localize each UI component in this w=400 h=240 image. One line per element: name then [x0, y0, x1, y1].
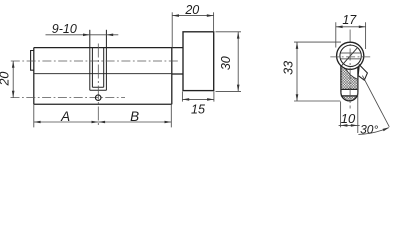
horizontal centerline: [330, 56, 370, 58]
cam tab: [358, 65, 367, 80]
cam cutout edge: [346, 69, 358, 80]
keyway slot inner walls: [92, 48, 103, 88]
dimension 20 (left): [0, 61, 15, 98]
svg-text:30: 30: [219, 56, 233, 70]
housing/plug boundary line: [34, 73, 172, 75]
svg-text:15: 15: [191, 103, 205, 117]
vertical centerline: [349, 30, 351, 109]
cylinder body left edge: [33, 48, 35, 105]
svg-text:10: 10: [341, 111, 356, 126]
dimension 15 (under knob): [182, 92, 214, 117]
dimension 9-10: [46, 22, 119, 36]
dimension 17: [336, 13, 366, 49]
keyway chords: [340, 53, 361, 59]
keyway diagonal: [341, 48, 357, 66]
svg-text:9-10: 9-10: [52, 22, 77, 36]
cylinder body right end: [171, 48, 173, 105]
screw channel lines: [341, 89, 358, 96]
cylinder body bottom edge: [34, 103, 172, 105]
dimension 33: [281, 42, 341, 101]
slot vertical centerline: [97, 44, 99, 128]
dimension 10: [339, 102, 360, 128]
outer circle: [337, 42, 364, 69]
svg-text:B: B: [130, 109, 139, 124]
narrow body right side: [357, 67, 359, 92]
inner circle: [340, 45, 361, 66]
angle 30 deg: [358, 75, 390, 137]
svg-text:30°: 30°: [360, 122, 378, 136]
screw hole centerline: [11, 97, 126, 99]
svg-text:17: 17: [342, 13, 357, 27]
svg-text:20: 20: [184, 3, 199, 17]
lower hatch crescent: [342, 96, 358, 101]
svg-text:33: 33: [281, 61, 295, 75]
keyway slot outer right wall: [105, 30, 107, 91]
bottom cap arc: [341, 92, 358, 101]
cylinder body top edge: [34, 47, 183, 49]
left end step: [31, 51, 34, 71]
fixing screw hole: [95, 95, 101, 101]
thumbturn knob: [183, 32, 214, 91]
dimension 30 (right of knob): [216, 32, 242, 92]
svg-text:20: 20: [0, 72, 11, 87]
upper hatch fill: [341, 66, 358, 90]
dimension A / B: [34, 104, 172, 127]
svg-text:A: A: [60, 109, 70, 124]
neck bottom line: [172, 73, 183, 75]
keyway slot outer bottom: [90, 89, 107, 91]
dimension 20 (top, knob): [172, 3, 213, 48]
narrow body left side: [340, 66, 342, 93]
keyway slot outer left wall: [89, 30, 91, 91]
plug axis centerline: [11, 60, 180, 62]
